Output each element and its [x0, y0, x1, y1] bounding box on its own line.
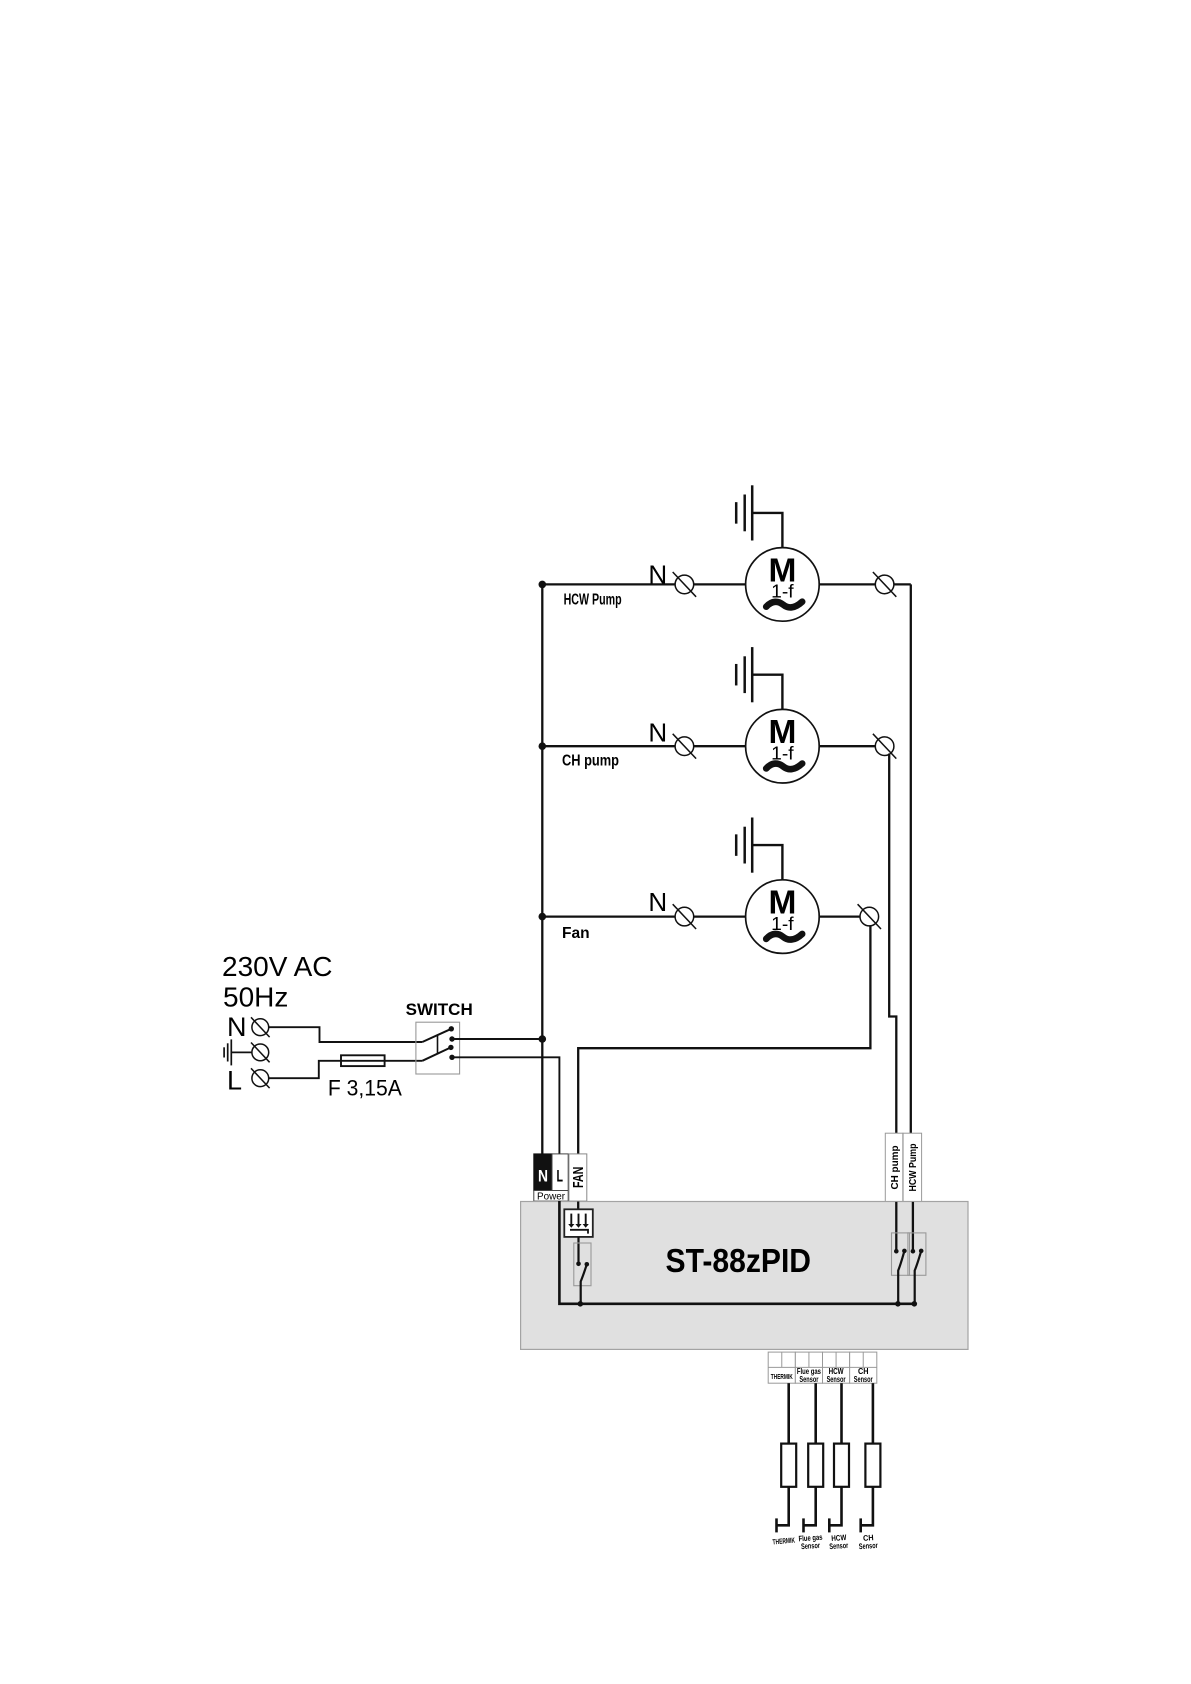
svg-text:1-f: 1-f [771, 581, 794, 602]
svg-text:L: L [557, 1167, 564, 1186]
svg-text:Sensor: Sensor [827, 1375, 846, 1384]
svg-text:Sensor: Sensor [801, 1541, 821, 1551]
svg-text:THERMIK: THERMIK [771, 1374, 793, 1381]
svg-text:50Hz: 50Hz [223, 982, 288, 1013]
svg-text:HCW Pump: HCW Pump [564, 592, 622, 609]
svg-text:HCW Pump: HCW Pump [907, 1144, 919, 1192]
svg-text:ST-88zPID: ST-88zPID [666, 1242, 812, 1279]
svg-text:Sensor: Sensor [854, 1375, 873, 1384]
svg-text:Fan: Fan [562, 925, 590, 942]
svg-text:N: N [227, 1012, 247, 1042]
svg-text:N: N [538, 1167, 548, 1186]
svg-text:Power: Power [537, 1191, 565, 1203]
svg-text:L: L [227, 1066, 242, 1096]
svg-text:SWITCH: SWITCH [406, 1000, 473, 1019]
svg-text:Sensor: Sensor [829, 1541, 849, 1551]
svg-text:CH pump: CH pump [562, 753, 619, 770]
svg-text:Sensor: Sensor [859, 1541, 879, 1551]
svg-text:Sensor: Sensor [799, 1375, 818, 1384]
svg-text:N: N [648, 718, 667, 748]
svg-text:CH pump: CH pump [889, 1146, 901, 1190]
svg-text:FAN: FAN [570, 1167, 587, 1189]
svg-text:N: N [648, 887, 667, 917]
svg-text:F 3,15A: F 3,15A [328, 1076, 402, 1101]
svg-text:N: N [648, 559, 667, 589]
svg-text:230V AC: 230V AC [222, 951, 333, 982]
svg-text:1-f: 1-f [771, 913, 794, 934]
svg-text:1-f: 1-f [771, 742, 794, 763]
